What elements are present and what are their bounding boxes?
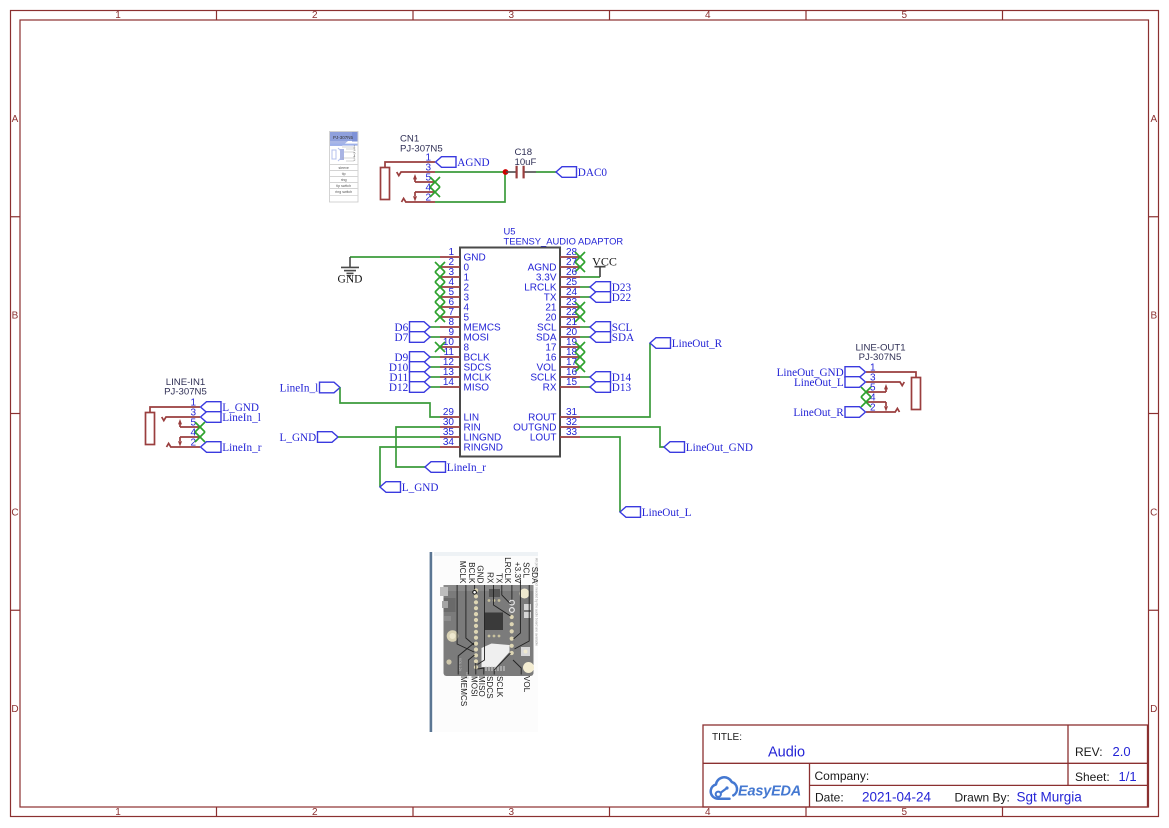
frame column numbers top [115, 10, 907, 21]
svg-text:SCL: SCL [521, 562, 530, 578]
net flag D13 [590, 382, 631, 394]
svg-text:TITLE:: TITLE: [712, 732, 742, 743]
no-connect X on U5 pin 27 [575, 262, 585, 272]
svg-text:A: A [1150, 114, 1157, 125]
svg-text:SDA: SDA [530, 567, 539, 584]
svg-text:sleeve: sleeve [339, 166, 349, 170]
U5 pin 25 LRCLK [524, 277, 580, 294]
no-connect X on U5 pin 23 [575, 302, 585, 312]
net flag D22 [590, 292, 631, 304]
wire D11 flag to U5 [430, 376, 440, 378]
svg-text:BCLK: BCLK [467, 562, 476, 584]
svg-text:DAC0: DAC0 [578, 167, 608, 179]
wire D6 flag to U5 [430, 326, 440, 328]
svg-text:10uF: 10uF [515, 157, 537, 168]
net flag D6 [395, 322, 430, 334]
net flag LineIn_r at LINE-IN1 pin2 [201, 442, 262, 454]
svg-text:LineIn_l: LineIn_l [222, 412, 261, 424]
net flag DAC0 [556, 167, 607, 179]
net flag D11 [389, 372, 430, 384]
net flag L_GND (from RINGND) [380, 482, 438, 494]
U5 pin 5 3 [440, 287, 470, 304]
wire U5 to SCL flag [580, 326, 590, 328]
svg-text:MISO: MISO [477, 676, 486, 697]
no-connect X on U5 pin 18 [575, 352, 585, 362]
U5 pin 17 VOL [536, 357, 580, 374]
wire D9 flag to U5 [430, 356, 440, 358]
svg-text:L_GND: L_GND [402, 482, 439, 494]
frame row letters left [11, 114, 18, 715]
wire D10 flag to U5 [430, 366, 440, 368]
svg-text:LineIn_r: LineIn_r [222, 442, 261, 454]
no-connect X on U5 pin 4 [435, 282, 445, 292]
svg-text:Audio: Audio [768, 745, 805, 761]
LINE-OUT1 reference labels [855, 343, 905, 364]
wire U5 pin31 ROUT to LineOut_R [580, 343, 650, 417]
wire U5 pin33 LOUT to LineOut_L [580, 437, 620, 512]
no-connect X on U5 pin 2 [435, 262, 445, 272]
svg-text:1: 1 [115, 807, 121, 818]
svg-text:33: 33 [566, 427, 578, 438]
net flag D10 [389, 362, 430, 374]
svg-text:MISO: MISO [464, 383, 490, 394]
net flag L_GND (to U5 LINGND) [280, 432, 338, 444]
net flag D12 [389, 382, 430, 394]
svg-text:tip: tip [342, 172, 346, 176]
svg-text:LineOut_L: LineOut_L [794, 377, 844, 389]
capacitor C18 10uF [506, 171, 536, 173]
svg-text:C: C [11, 507, 18, 518]
U5 pin 28 [560, 247, 580, 258]
U5 pin 32 OUTGND [513, 417, 580, 434]
wire U5 to SDA flag [580, 336, 590, 338]
ground symbol GND [341, 257, 359, 276]
connector LINE-OUT1 PJ-307N5 [866, 372, 921, 412]
no-connect X on U5 pin 28 [575, 252, 585, 262]
U5 pin 18 16 [545, 347, 580, 364]
svg-text:SCLK: SCLK [495, 676, 504, 698]
no-connect X on U5 pin 10 [435, 342, 445, 352]
wire U5 pin32 OUTGND to LineOut_GND [580, 427, 664, 447]
svg-text:2: 2 [354, 158, 356, 162]
U5 pin 4 2 [440, 277, 470, 294]
U5 pin 12 SDCS [440, 357, 492, 374]
svg-text:5: 5 [902, 807, 908, 818]
svg-text:RX: RX [543, 383, 557, 394]
svg-text:VCC: VCC [592, 254, 617, 268]
svg-text:RX: RX [486, 572, 495, 584]
svg-text:14: 14 [443, 377, 455, 388]
svg-text:4: 4 [705, 807, 711, 818]
net flag L_GND at LINE-IN1 pin1 [201, 402, 259, 414]
svg-text:2021-04-24: 2021-04-24 [862, 790, 932, 805]
svg-text:MEMCS: MEMCS [459, 676, 468, 706]
svg-text:2: 2 [190, 437, 196, 448]
frame row letters right [1150, 114, 1157, 715]
U5 pin 27 AGND [528, 257, 580, 274]
svg-text:D12: D12 [389, 382, 408, 394]
svg-text:SDA: SDA [612, 332, 634, 344]
no-connect X on U5 pin 17 [575, 362, 585, 372]
wire U5 to D14 flag [580, 376, 590, 378]
svg-text:TX: TX [495, 573, 504, 584]
svg-text:VOL: VOL [522, 676, 531, 693]
svg-text:Date:: Date: [815, 791, 844, 805]
net flag LineOut_GND (from OUTGND) [664, 442, 753, 454]
svg-text:B: B [12, 311, 19, 322]
svg-text:D: D [11, 704, 18, 715]
frame row ticks left [11, 217, 21, 611]
frame column ticks top [217, 11, 1003, 21]
svg-text:ring switch: ring switch [335, 190, 352, 194]
svg-text:LineOut_R: LineOut_R [672, 338, 723, 350]
svg-text:LineOut_GND: LineOut_GND [686, 442, 753, 454]
U5 pin 7 5 [440, 307, 470, 324]
svg-text:REV:: REV: [1075, 745, 1103, 759]
net flag LineIn_l (to U5 LIN) [280, 382, 340, 394]
U5 pin 16 SCLK [530, 367, 580, 384]
no-connect X on LINE-OUT1 pin 5 [861, 387, 871, 397]
U5 pin 35 LINGND [440, 427, 501, 444]
svg-text:3: 3 [509, 10, 515, 21]
U5 pin 33 LOUT [530, 427, 580, 444]
net flag LineOut_L at LINE-OUT1 pin3 [794, 377, 866, 389]
svg-text:2: 2 [425, 192, 431, 203]
U5 pin 9 MOSI [440, 327, 489, 344]
net flag LineOut_R (from ROUT) [650, 338, 723, 350]
svg-text:LineIn_r: LineIn_r [447, 462, 486, 474]
svg-text:ring: ring [341, 178, 347, 182]
svg-text:LineOut_R: LineOut_R [793, 407, 844, 419]
U5 pin 24 TX [544, 287, 580, 304]
title block frame [703, 725, 1148, 807]
svg-text:1/1: 1/1 [1119, 769, 1137, 784]
U5 pin 13 MCLK [440, 367, 492, 384]
no-connect X on U5 pin 3 [435, 272, 445, 282]
net flag SDA [590, 332, 634, 344]
power symbol VCC [595, 267, 606, 277]
svg-text:34: 34 [443, 437, 455, 448]
wire LineIn_l to U5 pin29 [340, 388, 440, 418]
svg-text:D22: D22 [612, 292, 631, 304]
svg-text:LOUT: LOUT [530, 433, 557, 444]
svg-text:SDCS: SDCS [485, 676, 494, 699]
wire D12 flag to U5 [430, 386, 440, 388]
svg-text:15: 15 [566, 377, 578, 388]
svg-text:2.0: 2.0 [1113, 744, 1131, 759]
net flag LineOut_GND at LINE-OUT1 pin1 [777, 367, 866, 379]
svg-text:LineIn_l: LineIn_l [280, 383, 319, 395]
wire L_GND to U5 pin35 [338, 436, 440, 438]
LINE-IN1 reference labels [164, 377, 207, 398]
U5 pin 29 LIN [440, 407, 479, 424]
no-connect X on CN1 pin 4 [430, 187, 440, 197]
U5 pin 19 17 [545, 337, 580, 354]
wire U5 pin26 to VCC [580, 276, 600, 278]
connector LINE-IN1 PJ-307N5 [146, 407, 201, 447]
U5 pin 22 20 [545, 307, 580, 324]
embedded image: teensy audio adaptor photo [430, 552, 540, 732]
no-connect X on CN1 pin 5 [430, 177, 440, 187]
EasyEDA logo [711, 777, 801, 799]
net flag LineOut_L (from LOUT) [620, 507, 692, 519]
wire C18 to DAC0 [536, 171, 556, 173]
svg-text:Sgt Murgia: Sgt Murgia [1017, 790, 1083, 805]
svg-text:A: A [12, 114, 19, 125]
svg-text:Sheet:: Sheet: [1075, 770, 1110, 784]
U5 pin 6 4 [440, 297, 470, 314]
U5 pin 8 MEMCS [440, 317, 501, 334]
net flag LineIn_r (from RIN) [425, 462, 486, 474]
svg-text:4: 4 [705, 10, 711, 21]
svg-text:LRCLK: LRCLK [503, 557, 512, 584]
svg-text:L_GND: L_GND [280, 432, 317, 444]
wire U5 to D23 flag [580, 286, 590, 288]
no-connect X on LINE-IN1 pin 5 [195, 422, 205, 432]
U5 pin 30 RIN [440, 417, 481, 434]
no-connect X on U5 pin 5 [435, 292, 445, 302]
frame column numbers bottom [115, 807, 907, 818]
U5 pin 2 0 [440, 257, 470, 274]
svg-text:LineOut_L: LineOut_L [642, 507, 692, 519]
net flag LineOut_R at LINE-OUT1 pin2 [793, 407, 865, 419]
no-connect X on U5 pin 7 [435, 312, 445, 322]
wire U5 pin30 RIN to LineIn_r [396, 427, 440, 467]
svg-text:C: C [1150, 507, 1157, 518]
svg-text:Company:: Company: [815, 769, 870, 783]
U5 pin 34 RINGND [440, 437, 503, 454]
svg-text:GND: GND [476, 565, 485, 583]
svg-text:TEENSY_AUDIO ADAPTOR: TEENSY_AUDIO ADAPTOR [504, 236, 624, 247]
U5 pin 10 8 [440, 337, 470, 354]
wire U5 to D22 flag [580, 296, 590, 298]
U5 pin 21 SCL [537, 317, 580, 334]
svg-text:GND: GND [338, 274, 363, 286]
svg-text:2: 2 [312, 10, 318, 21]
U5 pin 3 1 [440, 267, 470, 284]
op-amp/ic U5 TEENSY_AUDIO ADAPTOR body [460, 248, 560, 457]
net flag D14 [590, 372, 631, 384]
wire U5 pin34 RINGND to L_GND [380, 447, 440, 487]
frame column ticks bottom [217, 807, 1003, 817]
svg-text:RINGND: RINGND [464, 443, 503, 454]
wire CN1 pin3 to junction [435, 171, 505, 173]
wire U5 to D13 flag [580, 386, 590, 388]
svg-text:PJ-307N5: PJ-307N5 [400, 144, 443, 155]
svg-text:MCLK: MCLK [458, 561, 467, 584]
U5 pin 15 RX [543, 377, 580, 394]
net flag SCL [590, 322, 632, 334]
connector CN1 PJ-307N5 [381, 162, 436, 202]
U5 pin 14 MISO [440, 377, 489, 394]
wire U5 pin1 to ground [350, 256, 440, 258]
svg-text:PJ-307N5: PJ-307N5 [859, 352, 902, 363]
U5 pin 26 3.3V [536, 267, 580, 284]
svg-text:EasyEDA: EasyEDA [738, 783, 801, 799]
CN1 reference labels [400, 134, 443, 155]
C18 value labels [515, 147, 537, 168]
svg-text:tip switch: tip switch [336, 184, 351, 188]
svg-text:D13: D13 [612, 382, 632, 394]
svg-text:Drawn By:: Drawn By: [955, 791, 1010, 805]
U5 reference labels [504, 226, 624, 247]
net flag LineIn_l at LINE-IN1 pin3 [201, 412, 261, 424]
svg-text:5: 5 [902, 10, 908, 21]
wire D7 flag to U5 [430, 336, 440, 338]
net flag D9 [395, 352, 430, 364]
net flag AGND [436, 157, 490, 169]
junction node at C18 left [503, 169, 509, 175]
svg-text:2: 2 [870, 402, 876, 413]
U5 pin 23 21 [545, 297, 580, 314]
svg-text:B: B [1150, 311, 1157, 322]
net flag D23 [590, 282, 631, 294]
svg-text:PJ-307N5: PJ-307N5 [333, 135, 354, 140]
U5 pin 20 SDA [536, 327, 580, 344]
no-connect X on U5 pin 6 [435, 302, 445, 312]
no-connect X on U5 pin 22 [575, 312, 585, 322]
CN1 datasheet thumbnail image [330, 132, 359, 203]
net flag D7 [395, 332, 430, 344]
U5 pin 1 GND [440, 247, 486, 264]
svg-text:AGND: AGND [457, 157, 489, 169]
U5 pin 31 ROUT [528, 407, 580, 424]
svg-text:D7: D7 [395, 332, 409, 344]
no-connect X on LINE-IN1 pin 4 [195, 432, 205, 442]
svg-text:PJ-307N5: PJ-307N5 [164, 387, 207, 398]
no-connect X on U5 pin 19 [575, 342, 585, 352]
svg-text:1: 1 [115, 10, 121, 21]
wire CN1 pin2 up to junction [435, 172, 505, 202]
svg-text:2: 2 [312, 807, 318, 818]
frame row ticks right [1149, 217, 1159, 611]
svg-text:3: 3 [509, 807, 515, 818]
no-connect X on LINE-OUT1 pin 4 [861, 397, 871, 407]
svg-text:D: D [1150, 704, 1157, 715]
U5 pin 11 BCLK [440, 347, 490, 364]
